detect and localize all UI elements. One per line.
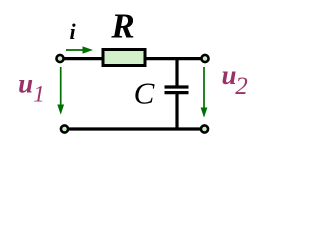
svg-text:1: 1	[33, 82, 45, 107]
terminal input bottom	[61, 125, 68, 132]
svg-text:u: u	[18, 69, 33, 99]
wire bottom rail	[67, 127, 201, 130]
label u1	[18, 69, 45, 107]
terminal input top	[56, 55, 63, 62]
terminal output bottom	[201, 125, 208, 132]
capacitor C plates	[165, 87, 189, 93]
wire capacitor branch upper	[175, 57, 178, 86]
wire top from resistor to output terminal	[144, 57, 201, 60]
svg-text:2: 2	[235, 73, 248, 100]
label u2	[221, 60, 247, 100]
voltage arrow u1	[57, 67, 64, 115]
voltage arrow u2	[201, 67, 208, 118]
svg-text:C: C	[134, 76, 155, 111]
wire capacitor branch lower	[175, 94, 178, 130]
wire top from input terminal to resistor	[63, 57, 104, 60]
svg-text:i: i	[69, 19, 76, 44]
current arrow i	[66, 46, 93, 53]
svg-text:R: R	[110, 7, 134, 46]
resistor R	[103, 50, 145, 66]
svg-text:u: u	[221, 60, 236, 90]
terminal output top	[201, 55, 208, 62]
